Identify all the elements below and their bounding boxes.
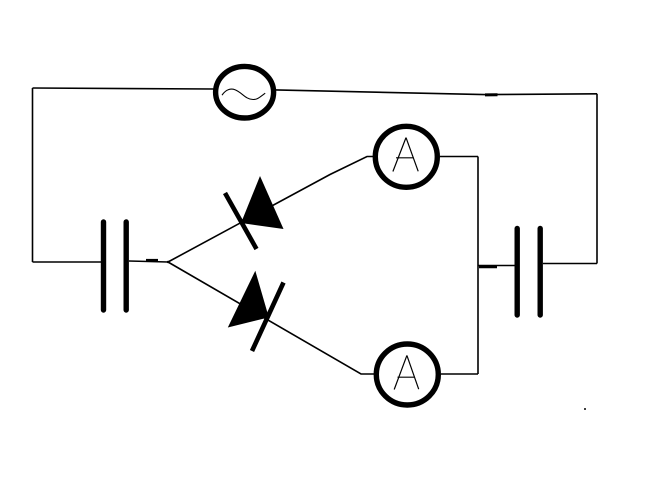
wire ammeter A1 right lead [440,156,478,158]
wire ammeter A1 left lead diagonal [168,157,374,263]
wire right vertical [596,94,598,264]
wire overlap dash C1 lead [146,259,158,262]
node fork junction [167,261,169,263]
wire top-left horizontal [33,88,214,89]
capacitor C1 [104,222,127,310]
ammeter A1 [375,126,437,187]
diode D2 [228,271,284,351]
wire overlap dash C2 lead [479,266,497,269]
ammeter A2 [376,344,438,405]
ac source V1 [216,66,274,118]
wire ammeter A2 left lead diagonal [168,262,374,374]
wire capacitor C1 left lead [33,261,102,263]
diode D1 [225,176,284,249]
wire overlap dash top-right [485,93,498,96]
wire left vertical [32,88,34,262]
wire capacitor C2 right lead [543,263,597,265]
wire top-right horizontal [276,90,597,95]
wire capacitor C1 right lead [129,261,168,262]
node stray dot [584,408,586,410]
wire ammeter bus vertical [477,157,479,375]
wire capacitor C2 left lead [478,265,515,267]
wire ammeter A2 right lead [441,373,478,375]
capacitor C2 [517,229,540,316]
